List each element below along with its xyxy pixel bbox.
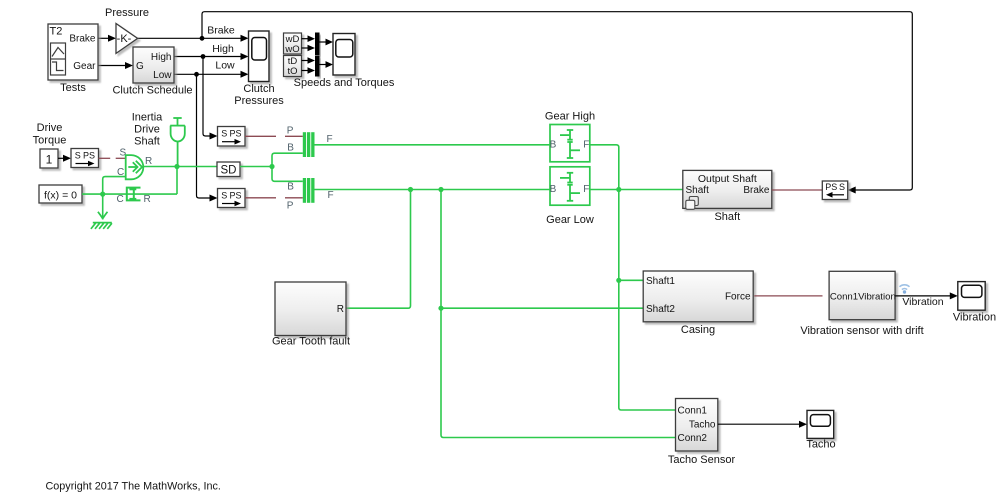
- svg-text:C: C: [117, 167, 124, 178]
- svg-text:PS: PS: [825, 182, 837, 192]
- svg-text:F: F: [328, 190, 334, 201]
- wire lower clutch F to Gear Low B: [315, 189, 551, 191]
- svg-text:Tacho: Tacho: [806, 439, 835, 451]
- wire Gear Low F to Shaft block: [590, 189, 683, 191]
- node junction Low branch: [194, 72, 199, 77]
- svg-text:Pressures: Pressures: [234, 95, 284, 107]
- wire vibration sensor to scope: [895, 295, 951, 297]
- wire High branch down to S-PS converter: [203, 57, 211, 137]
- wire PS to upper clutch P: [245, 135, 303, 137]
- scope Speeds and Torques: [333, 34, 355, 76]
- node junction at solver line: [100, 192, 105, 197]
- damper rotational: [127, 188, 141, 201]
- wire Tests.Brake to Pressure gain: [98, 37, 110, 39]
- scope Vibration: [958, 282, 985, 311]
- subsystem Vibration sensor with drift: [829, 271, 895, 319]
- subsystem badge Shaft: [686, 197, 699, 210]
- node output shaft junction: [616, 187, 621, 192]
- svg-text:Conn1Vibration: Conn1Vibration: [830, 291, 896, 302]
- converter S-PS U1: [71, 149, 99, 168]
- svg-text:Drive: Drive: [37, 122, 63, 134]
- wire branch to Casing Shaft1: [619, 279, 643, 281]
- svg-text:Shaft1: Shaft1: [646, 276, 675, 287]
- gain Pressure: [116, 24, 138, 54]
- svg-text:High: High: [212, 43, 234, 55]
- wire upper clutch F to Gear High B: [315, 144, 551, 146]
- block Tests (signal builder): [48, 24, 98, 80]
- svg-text:S: S: [839, 182, 845, 192]
- wire Low branch down to S-PS converter: [197, 74, 212, 198]
- node lower F junction 1: [408, 187, 413, 192]
- svg-text:High: High: [151, 52, 172, 63]
- wire damper R up to shaft node: [176, 167, 178, 195]
- svg-text:Speeds and Torques: Speeds and Torques: [294, 77, 395, 89]
- svg-text:Torque: Torque: [33, 135, 67, 147]
- wire Pressure gain output to Clutch Pressures Brake input: [138, 37, 242, 39]
- node junction Brake branch: [200, 36, 205, 41]
- clutch Gear High actuator (upper): [303, 132, 315, 157]
- svg-text:R: R: [145, 156, 152, 167]
- svg-text:PS: PS: [229, 190, 241, 200]
- svg-text:Conn1: Conn1: [678, 406, 708, 417]
- svg-text:PS: PS: [229, 129, 241, 139]
- svg-text:PS: PS: [83, 150, 95, 160]
- from tag tD tO: [284, 56, 302, 77]
- wire PS to lower clutch P: [245, 197, 303, 199]
- svg-text:F: F: [583, 140, 589, 151]
- svg-text:Gear: Gear: [73, 61, 96, 72]
- svg-text:C: C: [117, 194, 124, 205]
- svg-text:f(x) = 0: f(x) = 0: [44, 189, 77, 201]
- svg-text:Copyright 2017 The MathWorks,: Copyright 2017 The MathWorks, Inc.: [46, 481, 221, 493]
- svg-text:Pressure: Pressure: [105, 7, 149, 19]
- svg-text:Brake: Brake: [207, 25, 235, 37]
- wire mux2 to scope: [320, 64, 328, 66]
- svg-text:1: 1: [46, 153, 53, 167]
- scope Clutch Pressures: [249, 31, 270, 82]
- svg-text:Low: Low: [215, 60, 235, 72]
- svg-text:Vibration sensor with drift: Vibration sensor with drift: [800, 325, 923, 337]
- converter S-PS U2 (High pressure): [218, 127, 246, 147]
- wire constant to S-PS converter: [58, 157, 65, 159]
- scope Tacho: [807, 410, 834, 438]
- wire Clutch Schedule High to scope: [174, 56, 242, 58]
- node casing Shaft1 junction: [616, 278, 621, 283]
- wire up to torque source C port: [103, 177, 126, 195]
- wire Tests.Gear to Clutch Schedule: [98, 65, 127, 67]
- wire torque source R to SD tag: [144, 166, 217, 168]
- subsystem Gear High: [550, 125, 590, 162]
- svg-text:Force: Force: [725, 291, 751, 302]
- svg-text:S: S: [75, 150, 81, 160]
- svg-text:Inertia: Inertia: [132, 111, 163, 123]
- wire Gear Tooth fault R up to gear low line: [346, 190, 411, 309]
- svg-text:Shaft: Shaft: [714, 211, 740, 223]
- svg-text:Low: Low: [153, 70, 172, 81]
- wire Tacho Sensor to Tacho scope: [718, 423, 801, 425]
- svg-text:Casing: Casing: [681, 324, 715, 336]
- svg-text:T2: T2: [50, 26, 63, 38]
- converter PS-S (flipped): [822, 181, 847, 200]
- svg-text:Shaft: Shaft: [686, 185, 710, 196]
- subsystem Casing: [643, 271, 753, 322]
- inertia Drive Shaft: [170, 118, 185, 167]
- wire feedback Brake to PS-S converter (top loop): [202, 12, 912, 190]
- wire to lower clutch B: [272, 167, 303, 182]
- subsystem Tacho Sensor: [676, 399, 718, 452]
- wire branch to Casing Shaft2: [441, 307, 643, 309]
- wires from tags into mux 2: [302, 61, 310, 71]
- svg-text:SD: SD: [221, 165, 237, 177]
- svg-text:S: S: [221, 190, 227, 200]
- node casing Shaft2 junction: [438, 306, 443, 311]
- svg-text:B: B: [287, 143, 294, 154]
- block Clutch Schedule: [133, 47, 174, 83]
- wire output shaft down to casing and tacho Conn1: [619, 190, 676, 411]
- svg-text:Gear Low: Gear Low: [546, 214, 594, 226]
- svg-text:Gear Tooth fault: Gear Tooth fault: [272, 336, 350, 348]
- wire solver to network (through damper rod): [82, 193, 177, 195]
- subsystem Gear Low: [550, 167, 590, 205]
- svg-text:Clutch Schedule: Clutch Schedule: [112, 85, 192, 97]
- svg-text:R: R: [144, 194, 151, 205]
- clutch Gear Low actuator (lower): [303, 178, 315, 203]
- wire PS Shaft Brake to PS-S converter: [772, 189, 823, 191]
- wire PS from converter to torque source S port: [99, 157, 126, 159]
- node clutch branch junction: [269, 164, 274, 169]
- svg-text:P: P: [287, 126, 294, 137]
- streaming badge (wifi): [900, 285, 910, 290]
- svg-text:Brake: Brake: [69, 33, 96, 44]
- goto tag SD: [217, 162, 240, 177]
- node junction High branch: [201, 54, 206, 59]
- svg-text:F: F: [583, 184, 589, 195]
- node shaft junction: [174, 164, 179, 169]
- svg-text:B: B: [550, 184, 557, 195]
- subsystem Gear Tooth fault: [275, 282, 346, 336]
- svg-text:tO: tO: [287, 66, 297, 77]
- svg-text:Drive: Drive: [134, 123, 160, 135]
- wire PS Casing Force to vibration sensor: [754, 295, 822, 297]
- torque source (ideal torque source): [126, 155, 144, 179]
- svg-text:G: G: [136, 61, 144, 72]
- svg-text:F: F: [327, 134, 333, 145]
- mux 1: [315, 33, 320, 56]
- svg-text:Shaft: Shaft: [134, 136, 160, 148]
- svg-text:-K-: -K-: [117, 33, 132, 45]
- svg-text:Tacho: Tacho: [689, 420, 716, 431]
- constant 1 Drive Torque: [40, 149, 58, 168]
- svg-text:B: B: [287, 182, 294, 193]
- svg-text:Output Shaft: Output Shaft: [698, 173, 757, 185]
- wire down to ground: [102, 194, 104, 219]
- node lower F junction 2: [438, 187, 443, 192]
- svg-text:wO: wO: [284, 44, 299, 55]
- svg-text:Brake: Brake: [743, 185, 770, 196]
- mux 2: [315, 56, 320, 77]
- svg-text:R: R: [337, 304, 344, 315]
- wire mux1 to scope: [320, 41, 328, 43]
- svg-text:Gear High: Gear High: [545, 111, 595, 123]
- svg-text:B: B: [550, 140, 557, 151]
- wire Clutch Schedule Low to scope: [174, 73, 242, 75]
- svg-text:Conn2: Conn2: [678, 433, 708, 444]
- svg-text:Tests: Tests: [60, 82, 86, 94]
- from tag wD wO: [284, 33, 302, 54]
- wire SD out to clutch branch: [240, 166, 272, 168]
- wire Gear High F down to output shaft line: [590, 145, 619, 190]
- wires from tags into mux 1: [302, 39, 310, 48]
- converter S-PS U3 (Low pressure): [218, 189, 246, 208]
- svg-text:Clutch: Clutch: [243, 83, 274, 95]
- ground rotational reference: [91, 212, 112, 229]
- svg-text:Vibration: Vibration: [902, 296, 943, 308]
- wire down to Casing Shaft2 and Tacho Conn2: [441, 190, 676, 438]
- subsystem Shaft: [683, 170, 772, 208]
- wire to upper clutch B: [272, 153, 303, 166]
- svg-text:S: S: [221, 129, 227, 139]
- svg-text:P: P: [287, 201, 294, 212]
- svg-text:Shaft2: Shaft2: [646, 304, 675, 315]
- svg-text:Vibration: Vibration: [953, 311, 996, 323]
- solver f(x)=0: [39, 185, 82, 203]
- svg-text:Tacho Sensor: Tacho Sensor: [668, 454, 736, 466]
